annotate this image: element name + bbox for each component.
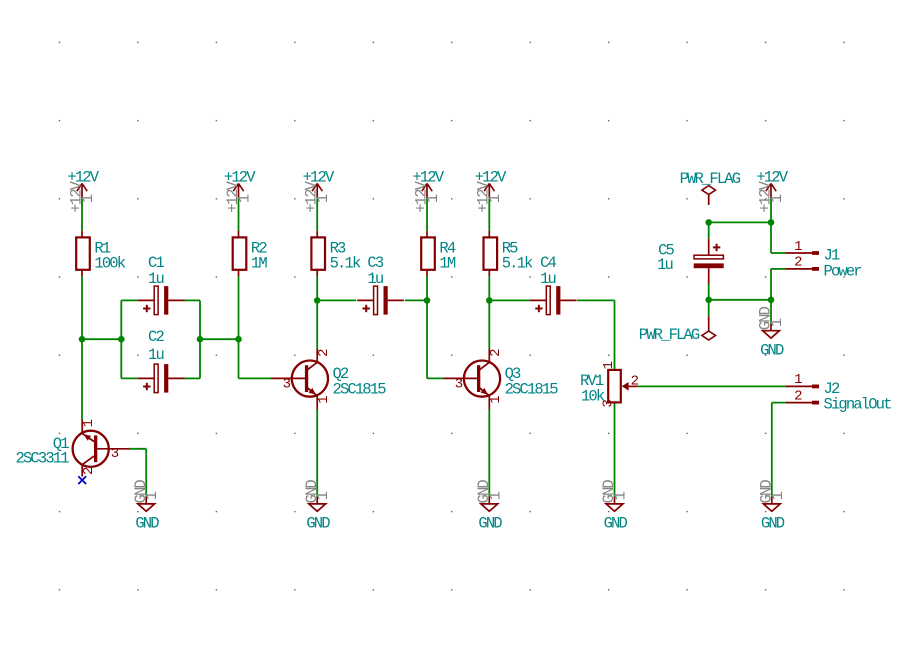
svg-text:2SC1815: 2SC1815	[333, 380, 387, 398]
svg-text:GND: GND	[604, 515, 628, 533]
svg-text:GND: GND	[306, 515, 330, 533]
svg-text:2SC3311: 2SC3311	[16, 450, 70, 468]
svg-text:1u: 1u	[148, 346, 163, 364]
svg-text:GND: GND	[761, 515, 785, 533]
svg-text:GND: GND	[478, 515, 502, 533]
svg-text:GND: GND	[760, 341, 784, 359]
svg-text:1M: 1M	[439, 255, 455, 273]
svg-text:2SC1815: 2SC1815	[505, 380, 559, 398]
svg-text:PWR_FLAG: PWR_FLAG	[639, 326, 700, 344]
svg-text:C2: C2	[148, 328, 164, 346]
svg-text:5.1k: 5.1k	[502, 255, 533, 273]
svg-text:100k: 100k	[94, 255, 125, 273]
svg-text:PWR_FLAG: PWR_FLAG	[680, 170, 741, 188]
svg-text:Power: Power	[824, 262, 862, 280]
svg-text:10k: 10k	[581, 388, 605, 406]
svg-text:1M: 1M	[251, 255, 267, 273]
svg-text:SignalOut: SignalOut	[824, 395, 892, 413]
svg-text:1u: 1u	[540, 270, 555, 288]
svg-text:1u: 1u	[367, 270, 382, 288]
svg-text:GND: GND	[135, 515, 159, 533]
svg-text:1u: 1u	[148, 270, 163, 288]
svg-text:5.1k: 5.1k	[330, 255, 361, 273]
svg-text:1u: 1u	[657, 256, 672, 274]
